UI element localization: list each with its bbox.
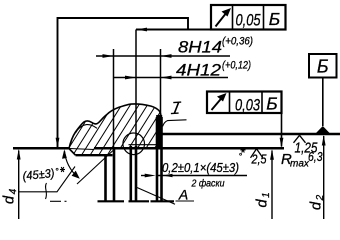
arrowhead up at surface [62,149,67,159]
dimension line 4H12 [114,77,228,79]
svg-text:Б: Б [317,57,329,77]
leader shelf of (45±3) label [19,167,75,192]
dimension line 8H14 [96,55,230,57]
ring prong wall 3a [156,117,159,201]
svg-text:(+0,36): (+0,36) [222,36,253,48]
feature control frame U2 runout 0,03 [207,92,282,115]
svg-text:8H14: 8H14 [178,39,222,57]
detail circle I [123,133,145,155]
feature control frame U1 runout 0,05 [211,5,286,30]
arrowhead down at left surface [56,138,60,148]
arrowhead left at prong wall right side [163,174,173,178]
recess ledge line [76,154,113,156]
shelf line of 0,2 label [157,175,247,177]
roughness mark 1,25 [294,135,306,143]
angular dimension arc (45±3) [65,151,78,177]
roughness mark 2,5 [251,149,263,158]
svg-text:max: max [290,159,310,170]
ring prong wall 1b [113,148,116,200]
svg-text:2 фаски: 2 фаски [191,178,225,190]
svg-text:(+0,12): (+0,12) [222,60,251,72]
arrowhead right tip at 136 [125,76,136,80]
lower surface line right part [94,147,284,150]
wire leader from runout frame U1 down to left surface [58,18,189,147]
datum frame Б [309,54,337,78]
dimension line d1 [271,151,273,220]
footnote star [60,167,65,172]
centerline long dash under prong 1 [98,200,125,202]
wire leader from frame U2 down to lower surface [281,113,283,147]
extension line at x=113.5 [113,49,115,149]
dimension line d2 [323,136,325,219]
svg-text:Б: Б [266,94,277,114]
arrowhead left tip at 160.5 [161,76,172,80]
extension line at x=160.5 [160,49,162,118]
detail label I [171,102,181,114]
svg-text:A: A [178,187,188,203]
leader of detail label I [163,120,187,127]
lower surface line d1 [13,147,70,150]
footnote star [241,148,246,153]
chamfer angle construction diagonal [77,151,113,185]
centerline long dash under prong 2 [129,200,150,202]
arrowhead up d4 [17,149,21,160]
freehand echo arc on hump [76,125,98,133]
centerline dash under A [176,200,195,202]
groove bottom line [129,144,163,146]
datum triangle [315,126,330,134]
arrowhead down at lower surface [280,138,284,148]
arrowhead right at prong wall [145,174,156,178]
svg-text:°: ° [55,167,59,177]
ring prong wall 2a [130,146,133,201]
datum leader [322,78,324,127]
centerline dot [65,200,67,202]
ring prong wall 1a [104,155,107,200]
part hump outline [69,104,161,149]
svg-text:0,03: 0,03 [235,96,260,115]
extension line at x=136 [135,30,137,147]
thin chamfer band top edge [70,149,95,150]
svg-text:6,3: 6,3 [308,149,323,164]
wire leader from runout frame U1 to extension line [136,29,211,31]
arrowhead up d1 [270,149,274,160]
view label A leader [137,188,175,205]
upper surface line d2 [162,133,340,135]
svg-text:0,05: 0,05 [236,11,261,30]
arrowhead left at extension line [136,28,147,32]
ring prong wall 2b [135,146,138,201]
arrowhead right tip at 113.5 [103,54,114,58]
dimension line d4 [18,151,20,220]
svg-text:4H12: 4H12 [176,62,221,80]
break squiggle [46,183,47,199]
svg-text:0,2±0,1×(45±3): 0,2±0,1×(45±3) [162,160,239,175]
hatching of section [60,92,216,162]
arrowhead up d2 [322,135,326,146]
centerline long dash under prong 3 [151,200,175,202]
wall fill band [156,115,162,149]
arrowhead at chamfer line [72,171,80,179]
centerline dash [50,200,61,202]
svg-text:°: ° [239,152,243,162]
arrowhead left tip at 160.5 [161,54,172,58]
svg-text:2,5: 2,5 [251,152,267,167]
dimension 0,2 chamfer: tail [141,175,147,177]
ring prong wall 3b [160,117,163,201]
svg-text:Б: Б [269,9,280,29]
chamfer edge at recess [69,149,76,156]
